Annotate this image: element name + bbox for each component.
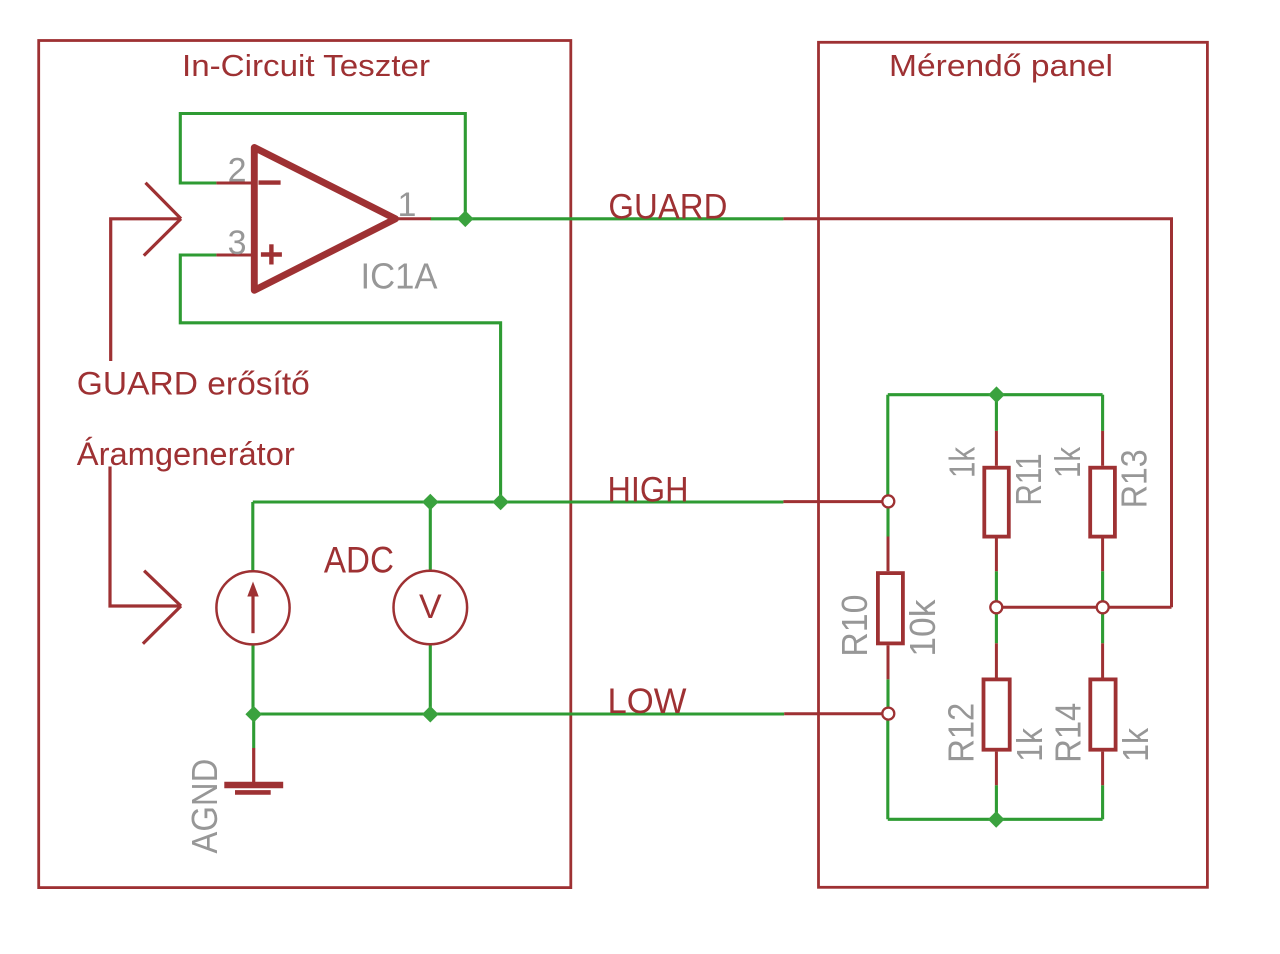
resistor R14 body [1090, 679, 1115, 749]
wire R11 top green [995, 395, 998, 431]
frame Merendo panel box [819, 42, 1208, 887]
junction HIGH at voltmeter [422, 494, 439, 511]
junction LOW at current source [245, 706, 262, 723]
wire R13 bottom green [1101, 571, 1104, 601]
wire AGND drop green [252, 714, 255, 748]
node mid bus right pad circle [1097, 601, 1109, 613]
wire op-amp feedback (pin2 to output) [180, 114, 465, 219]
svg-text:IC1A: IC1A [361, 255, 438, 296]
svg-text:LOW: LOW [608, 682, 687, 721]
resistor R13 body [1090, 468, 1115, 537]
svg-text:GUARD: GUARD [608, 187, 727, 226]
junction output GUARD [457, 211, 474, 228]
wire left column green lower [886, 720, 889, 820]
op-amp plus symbol [261, 252, 282, 256]
resistor R13 pins red [1101, 431, 1104, 466]
svg-text:AGND: AGND [184, 759, 225, 854]
frame In-Circuit Teszter box [39, 41, 571, 888]
wire HIGH net green [253, 500, 784, 503]
wire current source top [251, 502, 254, 571]
op-amp minus symbol [259, 180, 281, 184]
resistor R12 body [984, 679, 1010, 749]
node HIGH pad circle [882, 495, 894, 507]
svg-text:2: 2 [228, 152, 247, 190]
resistor R11 body [984, 468, 1009, 537]
wire pin3 to HIGH [180, 255, 500, 502]
svg-text:R14: R14 [1048, 703, 1089, 763]
svg-text:ADC: ADC [324, 540, 394, 581]
wire R11 bottom green [995, 571, 998, 601]
junction HIGH at pin3 wire [492, 494, 509, 511]
wire GUARD net green [431, 217, 784, 220]
wire voltmeter top [429, 502, 432, 571]
svg-text:Mérendő panel: Mérendő panel [889, 49, 1113, 83]
svg-text:1k: 1k [1047, 446, 1088, 478]
wire R12 bottom green [995, 785, 998, 819]
junction LOW at voltmeter [422, 706, 439, 723]
ground AGND symbol [252, 748, 255, 782]
wire R10 bottom green [886, 679, 889, 708]
svg-text:In-Circuit Teszter: In-Circuit Teszter [182, 49, 430, 83]
pointer GUARD erosito arrow [111, 219, 181, 361]
wire left column green upper [886, 395, 889, 496]
pin 3 red [216, 254, 254, 257]
svg-text:R13: R13 [1114, 449, 1155, 508]
svg-text:V: V [419, 588, 442, 626]
wire bottom bus green [888, 818, 1103, 821]
node mid bus left pad circle [990, 601, 1002, 613]
junction top bus [988, 386, 1005, 403]
pointer Aramgenerator arrow [110, 467, 181, 607]
svg-text:R12: R12 [941, 703, 982, 763]
resistor R12 pins red [995, 643, 998, 677]
wire GUARD red into panel [783, 219, 1171, 608]
svg-text:1k: 1k [1009, 727, 1050, 762]
svg-text:R10: R10 [834, 595, 875, 657]
svg-text:HIGH: HIGH [608, 470, 689, 509]
wire LOW net green [254, 712, 785, 715]
wire R14 top green [1101, 614, 1104, 644]
wire current source bottom [251, 644, 254, 714]
wire R13 top green [1101, 395, 1104, 431]
voltmeter V circle [394, 571, 468, 645]
wire top bus green [888, 393, 1103, 396]
wire LOW red into panel [784, 712, 883, 715]
wire R14 bottom green [1101, 785, 1104, 819]
svg-text:1k: 1k [942, 446, 983, 478]
svg-text:1k: 1k [1115, 727, 1156, 762]
resistor R11 pins red [995, 431, 998, 466]
resistor R10 body [878, 573, 903, 643]
pin 2 red [216, 182, 254, 185]
wire R12 top green [995, 614, 998, 644]
svg-text:10k: 10k [902, 599, 943, 657]
wire R10 top green [886, 507, 889, 537]
wire HIGH red into panel [783, 500, 883, 503]
current source G1 circle [216, 571, 289, 644]
junction bottom bus [988, 811, 1005, 828]
wire mid bus red [996, 606, 1171, 609]
wire voltmeter bottom [429, 644, 432, 714]
resistor R10 pins red [887, 537, 890, 572]
pin 1 red [395, 217, 431, 220]
node LOW pad circle [882, 708, 894, 720]
svg-text:3: 3 [228, 224, 247, 262]
svg-text:GUARD erősítő: GUARD erősítő [77, 366, 310, 402]
resistor R14 pins red [1101, 643, 1104, 677]
op-amp U1 triangle [254, 148, 395, 291]
svg-text:1: 1 [398, 186, 417, 224]
svg-text:R11: R11 [1008, 454, 1049, 506]
